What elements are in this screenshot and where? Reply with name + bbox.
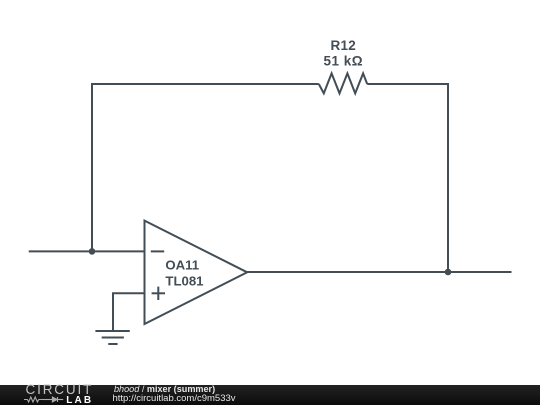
svg-text:51 kΩ: 51 kΩ xyxy=(323,53,363,68)
svg-text:OA11: OA11 xyxy=(165,258,199,273)
svg-text:R12: R12 xyxy=(330,38,356,53)
svg-text:TL081: TL081 xyxy=(165,274,203,289)
